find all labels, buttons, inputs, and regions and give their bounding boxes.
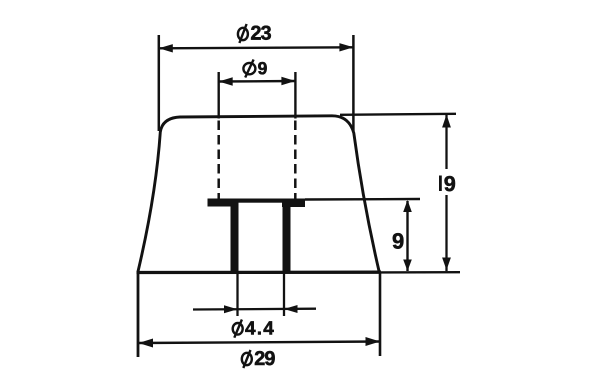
phi4.4 right arrowhead (pointing left) [284, 305, 298, 313]
phi29 right extension line [379, 274, 382, 357]
body bottom edge [137, 271, 382, 275]
phi9 label phi symbol [243, 60, 255, 78]
dim 9 top arrowhead [403, 200, 412, 212]
phi9 dimension line [219, 80, 296, 83]
dim 19 vertical line lower segment [445, 195, 447, 271]
washer insert: left flange cap [208, 199, 232, 207]
phi23 left arrowhead [159, 44, 173, 52]
bottom extension line to right (for 19 and 9 dims) [381, 271, 460, 274]
phi4.4 dimension line with outside leaders [193, 308, 316, 311]
phi23 label text [251, 26, 271, 40]
dim 19 label digit 1 (plain bar) [439, 176, 442, 192]
dim 19 top arrowhead [442, 115, 451, 128]
phi4.4 label phi symbol [233, 320, 243, 338]
phi4.4 left arrowhead (pointing right) [224, 305, 238, 313]
phi4.4 label text [245, 321, 273, 334]
dashed hidden line right (phi9 bore) [294, 121, 297, 200]
phi29 label text [255, 351, 275, 365]
washer insert: right flange cap [282, 200, 305, 208]
phi23 right arrowhead [339, 43, 353, 51]
body outline (trapezoid bumper profile) [138, 116, 379, 272]
washer insert: left stem wall [231, 202, 239, 272]
dashed hidden line left (phi9 bore) [217, 121, 220, 200]
phi4.4 right extension line below body [283, 273, 285, 316]
washer insert: top bar [208, 199, 306, 203]
washer insert: right stem wall [283, 202, 291, 272]
phi4.4 left extension line below body [236, 273, 238, 316]
phi29 right arrowhead [366, 337, 381, 346]
dim 9 extension line (from washer bar to right) [305, 198, 420, 201]
dim 9 bottom arrowhead [403, 260, 412, 272]
dim 9 label [393, 233, 404, 249]
phi29 label phi symbol [242, 350, 252, 368]
phi23 label phi symbol [238, 24, 248, 43]
phi23 right extension line [352, 35, 355, 131]
dim 19 label digit 9 [445, 176, 456, 191]
phi23 left extension line [158, 35, 161, 131]
phi9 right extension line (solid above body) [294, 72, 296, 119]
phi9 label text [258, 62, 267, 74]
dim 19 bottom arrowhead [442, 258, 451, 271]
dim 19 vertical line upper segment [445, 115, 447, 169]
phi9 right arrowhead [281, 77, 295, 85]
dim 9 vertical line [406, 201, 408, 271]
phi23 dimension line [159, 47, 354, 48]
phi9 left extension line (solid above body) [217, 72, 219, 119]
phi29 dimension line [139, 342, 381, 344]
phi29 left arrowhead [139, 339, 154, 348]
phi29 left extension line [137, 274, 140, 358]
phi9 left arrowhead [219, 77, 233, 85]
top extension line to right (for 19 dim) [340, 114, 456, 115]
